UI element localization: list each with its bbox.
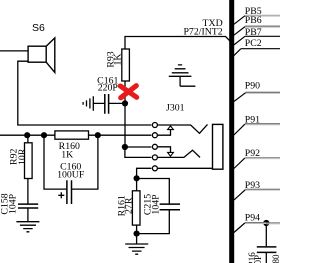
svg-text:10P: 10P [253,255,263,263]
svg-text:P90: P90 [245,80,260,91]
svg-text:J301: J301 [166,103,185,114]
svg-text:1K: 1K [112,54,123,66]
svg-text:P92: P92 [245,148,260,159]
svg-text:P91: P91 [245,114,260,125]
svg-text:P72/INT2: P72/INT2 [183,26,222,37]
svg-text:PC2: PC2 [245,38,262,49]
svg-text:10R: 10R [17,148,28,165]
svg-text:104P: 104P [151,194,162,215]
svg-text:P94: P94 [245,213,260,224]
svg-text:S6: S6 [32,22,45,34]
svg-text:1K: 1K [61,150,73,161]
svg-text:PB6: PB6 [245,15,262,26]
svg-text:27R: 27R [124,197,135,214]
svg-text:C80: C80 [271,254,280,263]
svg-text:100UF: 100UF [57,170,85,181]
svg-text:104P: 104P [8,193,19,214]
svg-text:P93: P93 [245,180,260,191]
svg-text:220P: 220P [98,82,119,93]
svg-text:PB7: PB7 [245,27,262,38]
